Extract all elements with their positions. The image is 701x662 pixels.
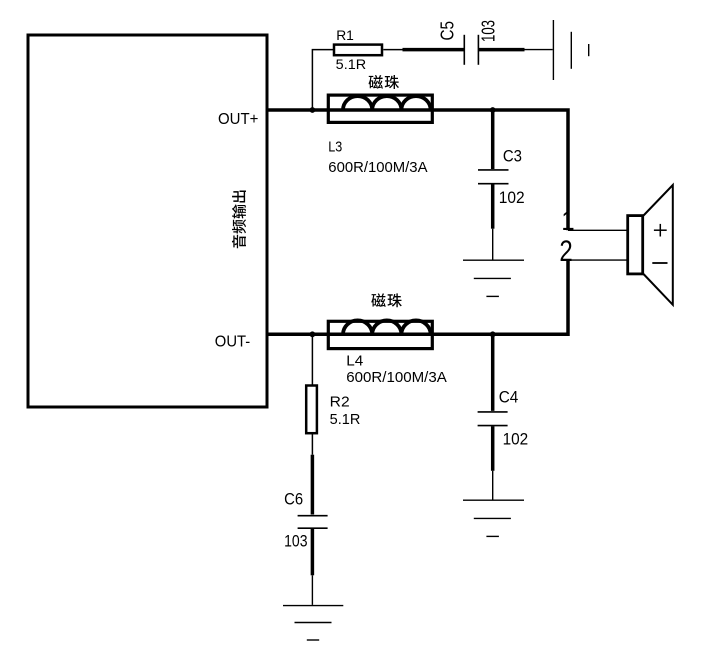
label 磁珠 (L3)	[369, 75, 399, 89]
ground (C4)	[463, 500, 524, 536]
svg-text:OUT-: OUT-	[215, 333, 250, 350]
speaker horn	[644, 185, 673, 305]
pin 1 wire to speaker	[568, 229, 627, 231]
node junction on OUT+ (R1 tap)	[310, 107, 316, 113]
wire C6 to ground	[311, 529, 315, 576]
svg-text:600R/100M/3A: 600R/100M/3A	[328, 159, 427, 176]
svg-text:R2: R2	[330, 395, 350, 411]
resistor R2 5.1R	[306, 386, 317, 434]
amplifier box U1 音频输出	[28, 35, 267, 407]
wire node to R2	[311, 334, 313, 384]
svg-text:R1: R1	[336, 27, 354, 43]
speaker + mark	[654, 224, 667, 237]
svg-text:OUT+: OUT+	[218, 111, 258, 128]
svg-text:C4: C4	[499, 388, 519, 407]
wire R1 to C5	[383, 49, 402, 51]
wire C5 to ground	[478, 48, 524, 52]
svg-text:103: 103	[284, 532, 307, 551]
ferrite bead L3 磁珠 600R/100M/3A	[328, 95, 432, 122]
wire R1 branch riser	[312, 50, 333, 110]
ground (C3)	[463, 260, 524, 296]
capacitor C3 102	[478, 170, 509, 184]
capacitor C6 103	[298, 516, 328, 529]
svg-text:1: 1	[561, 204, 574, 236]
label 磁珠 (L4)	[371, 293, 401, 307]
label 音频输出 (vertical)	[232, 190, 246, 248]
svg-text:103: 103	[479, 20, 499, 42]
wire node to C4	[491, 334, 495, 411]
speaker - mark	[652, 262, 667, 264]
pin 2 wire to speaker	[568, 259, 627, 261]
node junction on OUT- (C4 tap)	[490, 331, 496, 337]
svg-text:L3: L3	[328, 138, 342, 155]
ferrite bead L4 磁珠 600R/100M/3A	[328, 320, 432, 348]
ground (top right, facing right)	[553, 20, 588, 80]
wire OUT+ from box to L3, to node, to speaker rail	[267, 110, 568, 230]
svg-text:C5: C5	[438, 21, 458, 41]
wire C4 to ground	[491, 426, 495, 471]
node junction on OUT+ (C3 tap)	[490, 107, 496, 113]
svg-text:102: 102	[499, 188, 525, 207]
ground (C6)	[283, 606, 343, 640]
svg-text:5.1R: 5.1R	[330, 412, 361, 428]
resistor R1 5.1R	[334, 45, 382, 56]
wire node to C3	[491, 110, 495, 169]
svg-text:L4: L4	[346, 353, 363, 370]
svg-text:C6: C6	[284, 490, 303, 509]
node junction on OUT- (R2 tap)	[310, 331, 316, 337]
capacitor C5 103	[464, 35, 478, 65]
svg-text:2: 2	[559, 233, 572, 267]
speaker LS1	[628, 216, 643, 274]
svg-text:102: 102	[503, 430, 529, 449]
svg-text:C3: C3	[503, 147, 522, 166]
wire OUT- from box to L4, to node, to speaker rail	[267, 260, 568, 334]
svg-text:5.1R: 5.1R	[336, 56, 367, 72]
wire C3 to ground	[491, 184, 495, 228]
svg-text:600R/100M/3A: 600R/100M/3A	[346, 369, 447, 386]
capacitor C4 102	[478, 412, 508, 426]
wire R2 to C6	[311, 433, 313, 455]
